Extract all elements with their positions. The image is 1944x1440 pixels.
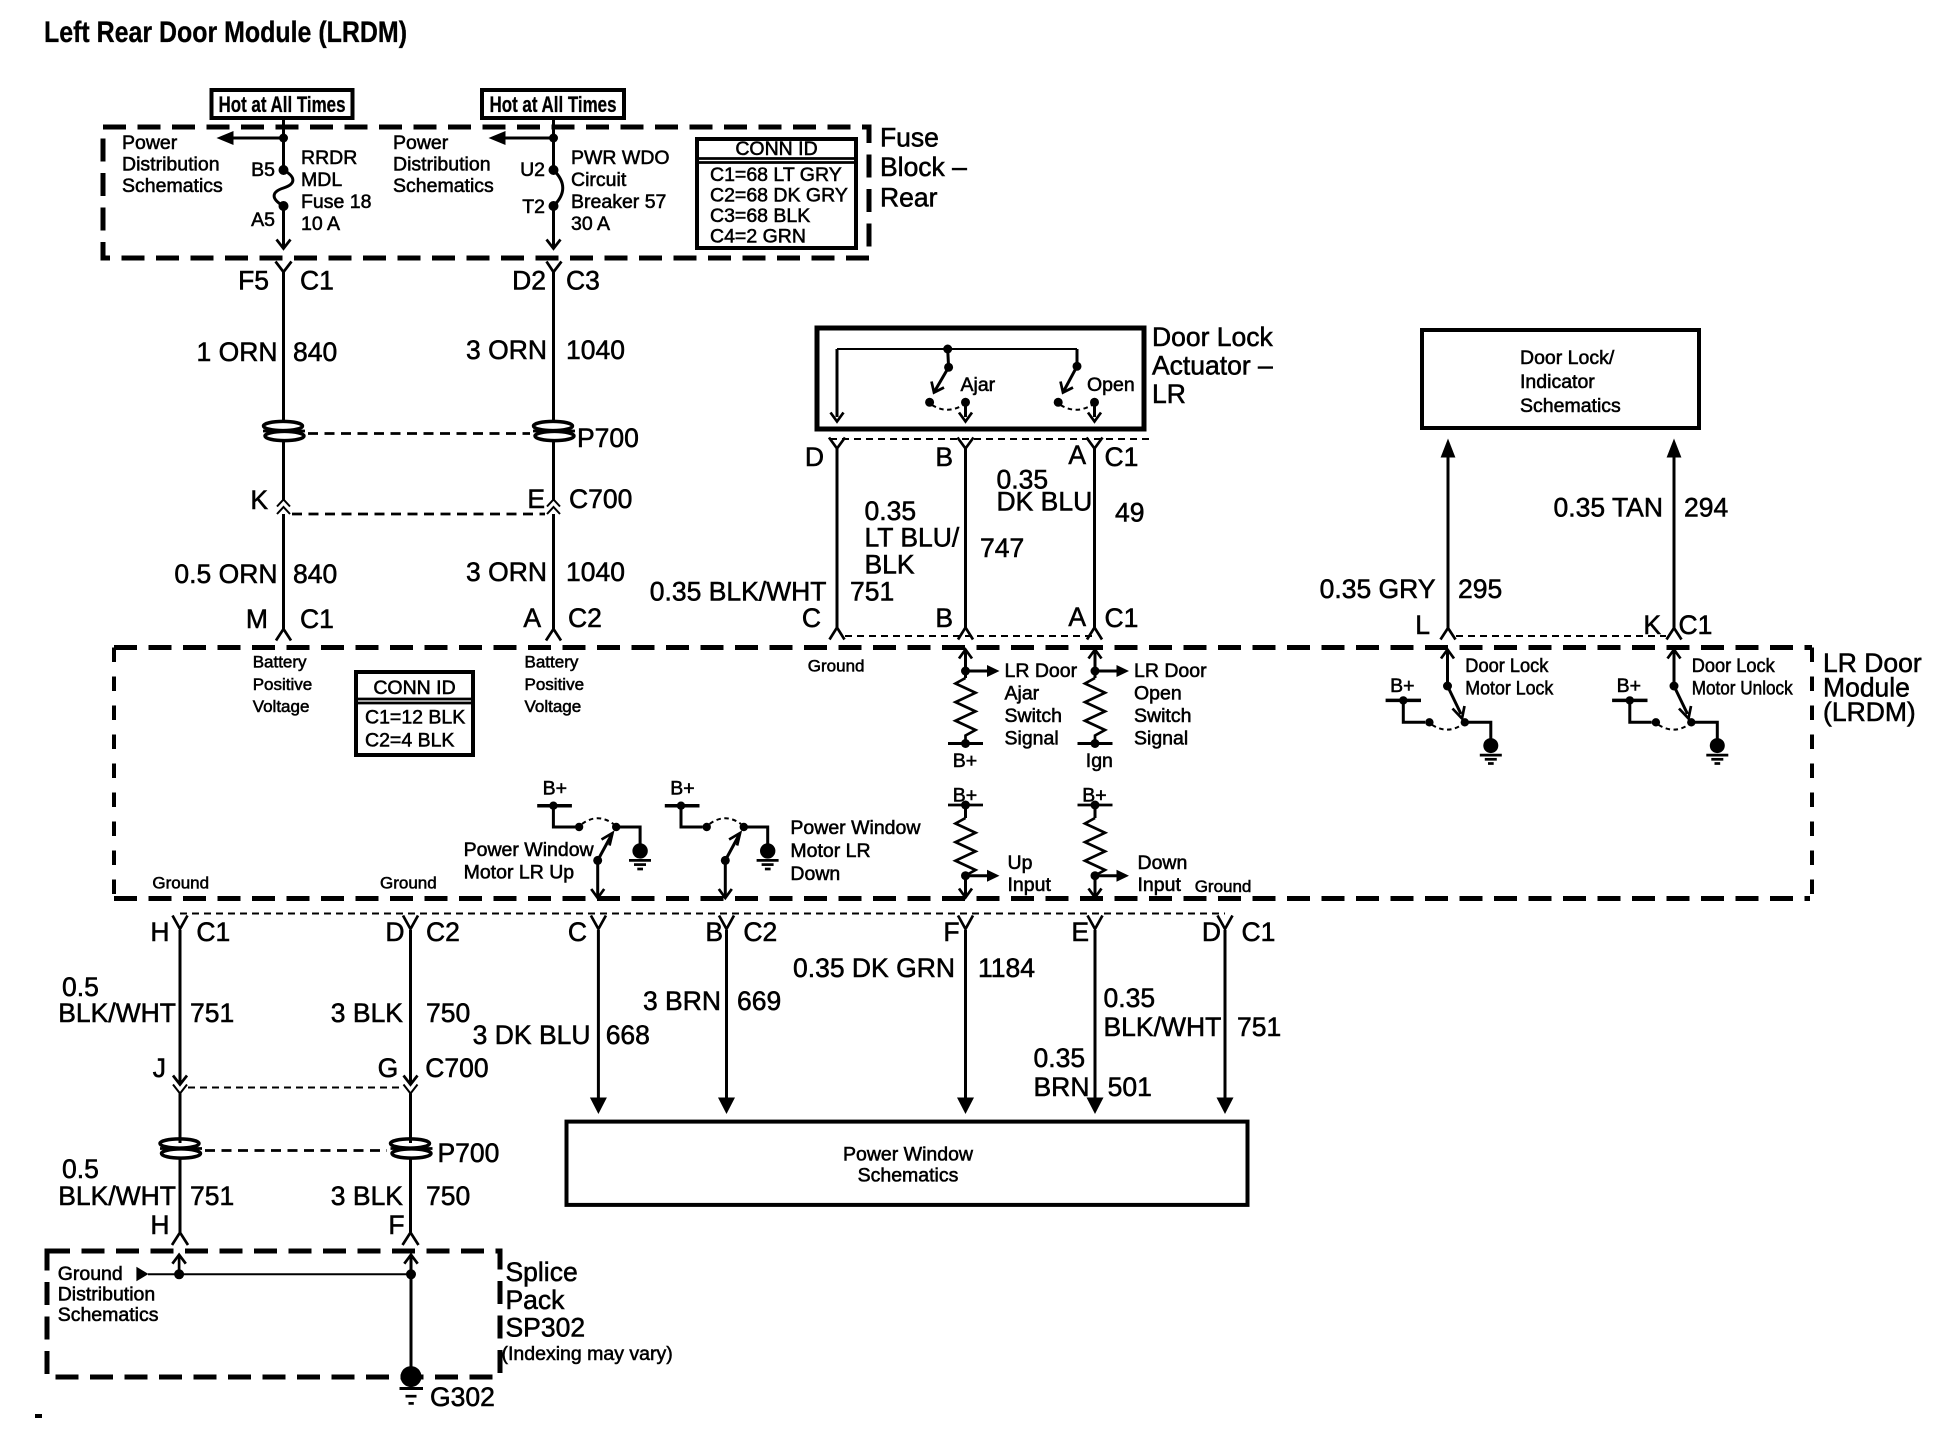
svg-text:B+: B+ bbox=[953, 750, 977, 772]
svg-text:H: H bbox=[150, 917, 169, 947]
svg-text:E: E bbox=[527, 484, 545, 514]
svg-text:Distribution: Distribution bbox=[393, 154, 491, 176]
svg-text:F5: F5 bbox=[238, 266, 269, 296]
svg-text:3 BLK: 3 BLK bbox=[331, 1181, 404, 1211]
svg-text:C1=12 BLK: C1=12 BLK bbox=[365, 707, 465, 729]
svg-text:F: F bbox=[943, 917, 959, 947]
svg-text:H: H bbox=[150, 1210, 169, 1240]
svg-text:Power: Power bbox=[393, 132, 449, 154]
svg-text:669: 669 bbox=[737, 986, 781, 1016]
svg-text:LR Door: LR Door bbox=[1134, 660, 1207, 682]
svg-text:C3=68 BLK: C3=68 BLK bbox=[710, 205, 810, 227]
svg-text:D: D bbox=[1202, 917, 1221, 947]
svg-text:Battery: Battery bbox=[253, 653, 307, 672]
svg-text:C4=2 GRN: C4=2 GRN bbox=[710, 226, 806, 248]
svg-text:0.35 TAN: 0.35 TAN bbox=[1554, 493, 1664, 523]
svg-text:Positive: Positive bbox=[525, 675, 585, 694]
svg-text:Door Lock: Door Lock bbox=[1692, 655, 1775, 677]
svg-text:SP302: SP302 bbox=[506, 1313, 586, 1343]
svg-text:C: C bbox=[568, 917, 587, 947]
svg-text:BLK: BLK bbox=[865, 550, 915, 580]
svg-text:K: K bbox=[250, 485, 268, 515]
svg-text:D2: D2 bbox=[512, 266, 546, 296]
svg-text:T2: T2 bbox=[522, 196, 545, 218]
svg-text:747: 747 bbox=[980, 533, 1024, 563]
svg-text:295: 295 bbox=[1458, 574, 1502, 604]
svg-text:D: D bbox=[385, 917, 404, 947]
svg-text:BRN: BRN bbox=[1034, 1072, 1090, 1102]
svg-text:Battery: Battery bbox=[525, 653, 579, 672]
svg-text:Block –: Block – bbox=[880, 152, 967, 182]
svg-text:J: J bbox=[153, 1053, 166, 1083]
svg-text:C2=68 DK GRY: C2=68 DK GRY bbox=[710, 185, 848, 207]
svg-text:751: 751 bbox=[190, 1181, 234, 1211]
svg-text:668: 668 bbox=[606, 1020, 650, 1050]
svg-text:Door Lock: Door Lock bbox=[1152, 322, 1274, 352]
svg-text:Actuator –: Actuator – bbox=[1152, 351, 1273, 381]
svg-text:F: F bbox=[388, 1210, 404, 1240]
svg-text:840: 840 bbox=[293, 337, 337, 367]
svg-text:C1: C1 bbox=[1105, 603, 1139, 633]
svg-text:Indicator: Indicator bbox=[1520, 371, 1595, 393]
svg-text:C3: C3 bbox=[566, 266, 600, 296]
svg-text:B5: B5 bbox=[251, 159, 275, 181]
svg-text:751: 751 bbox=[1237, 1012, 1281, 1042]
svg-text:3 DK BLU: 3 DK BLU bbox=[473, 1020, 591, 1050]
svg-text:Signal: Signal bbox=[1134, 728, 1188, 750]
svg-text:C1: C1 bbox=[300, 604, 334, 634]
svg-text:B+: B+ bbox=[1390, 675, 1414, 697]
svg-text:Breaker 57: Breaker 57 bbox=[571, 191, 666, 213]
svg-text:Motor LR: Motor LR bbox=[790, 840, 870, 862]
svg-text:Ajar: Ajar bbox=[1005, 683, 1040, 705]
svg-text:Voltage: Voltage bbox=[525, 697, 582, 716]
svg-text:DK BLU: DK BLU bbox=[997, 487, 1093, 517]
svg-text:G: G bbox=[378, 1053, 399, 1083]
svg-text:Power Window: Power Window bbox=[464, 839, 595, 861]
svg-text:M: M bbox=[246, 604, 268, 634]
svg-text:Up: Up bbox=[1008, 852, 1033, 874]
svg-text:1184: 1184 bbox=[978, 953, 1035, 983]
svg-text:Door Lock/: Door Lock/ bbox=[1520, 347, 1615, 369]
svg-text:Power: Power bbox=[122, 132, 178, 154]
svg-text:Down: Down bbox=[1138, 852, 1188, 874]
svg-text:750: 750 bbox=[426, 1181, 470, 1211]
svg-text:E: E bbox=[1071, 917, 1089, 947]
svg-text:B: B bbox=[935, 442, 953, 472]
svg-text:MDL: MDL bbox=[301, 169, 342, 191]
svg-text:G302: G302 bbox=[430, 1382, 495, 1412]
svg-text:Signal: Signal bbox=[1005, 728, 1059, 750]
svg-text:Ground: Ground bbox=[58, 1263, 123, 1285]
svg-text:Motor Unlock: Motor Unlock bbox=[1692, 678, 1793, 700]
svg-text:C700: C700 bbox=[425, 1053, 488, 1083]
svg-text:Door Lock: Door Lock bbox=[1465, 655, 1548, 677]
svg-text:A5: A5 bbox=[251, 209, 275, 231]
svg-text:P700: P700 bbox=[577, 423, 639, 453]
svg-text:A: A bbox=[1068, 602, 1086, 632]
svg-text:0.5 ORN: 0.5 ORN bbox=[174, 559, 277, 589]
svg-text:0.35 BLK/WHT: 0.35 BLK/WHT bbox=[650, 577, 827, 607]
svg-text:Open: Open bbox=[1134, 683, 1182, 705]
svg-text:751: 751 bbox=[850, 577, 894, 607]
svg-text:3 ORN: 3 ORN bbox=[466, 335, 547, 365]
svg-text:3 ORN: 3 ORN bbox=[466, 557, 547, 587]
svg-text:Power Window: Power Window bbox=[843, 1144, 974, 1166]
svg-text:0.35 DK GRN: 0.35 DK GRN bbox=[793, 953, 955, 983]
svg-text:BLK/WHT: BLK/WHT bbox=[58, 998, 176, 1028]
svg-text:BLK/WHT: BLK/WHT bbox=[58, 1181, 176, 1211]
svg-text:0.35: 0.35 bbox=[1104, 983, 1156, 1013]
svg-text:Pack: Pack bbox=[506, 1285, 566, 1315]
svg-text:Distribution: Distribution bbox=[122, 154, 220, 176]
svg-text:Ign: Ign bbox=[1086, 750, 1113, 772]
svg-text:LT BLU/: LT BLU/ bbox=[865, 523, 960, 553]
svg-text:LR Door: LR Door bbox=[1005, 660, 1078, 682]
svg-text:Down: Down bbox=[790, 863, 840, 885]
svg-text:A: A bbox=[523, 603, 541, 633]
svg-text:0.35: 0.35 bbox=[1034, 1043, 1086, 1073]
svg-text:49: 49 bbox=[1115, 498, 1144, 528]
svg-text:C1: C1 bbox=[196, 917, 230, 947]
svg-text:PWR WDO: PWR WDO bbox=[571, 147, 670, 169]
svg-text:Input: Input bbox=[1008, 874, 1052, 896]
svg-text:B+: B+ bbox=[1617, 675, 1641, 697]
svg-text:(Indexing may vary): (Indexing may vary) bbox=[502, 1343, 673, 1365]
svg-text:Switch: Switch bbox=[1005, 705, 1062, 727]
svg-text:Ground: Ground bbox=[808, 657, 865, 676]
svg-text:1040: 1040 bbox=[566, 335, 625, 365]
svg-text:L: L bbox=[1415, 610, 1430, 640]
svg-text:C2: C2 bbox=[426, 917, 460, 947]
svg-text:Left Rear Door Module (LRDM): Left Rear Door Module (LRDM) bbox=[44, 16, 407, 49]
svg-text:Distribution: Distribution bbox=[58, 1284, 156, 1306]
svg-text:C1: C1 bbox=[1679, 610, 1713, 640]
svg-text:A: A bbox=[1068, 440, 1086, 470]
svg-text:Ajar: Ajar bbox=[961, 374, 996, 396]
svg-text:U2: U2 bbox=[520, 159, 545, 181]
svg-text:10 A: 10 A bbox=[301, 213, 340, 235]
svg-text:1040: 1040 bbox=[566, 557, 625, 587]
svg-text:Ground: Ground bbox=[152, 874, 209, 893]
svg-text:294: 294 bbox=[1684, 493, 1728, 523]
svg-text:Switch: Switch bbox=[1134, 705, 1191, 727]
svg-text:Schematics: Schematics bbox=[122, 175, 223, 197]
svg-text:Motor Lock: Motor Lock bbox=[1465, 678, 1553, 700]
svg-text:Voltage: Voltage bbox=[253, 697, 310, 716]
svg-text:Ground: Ground bbox=[380, 874, 437, 893]
svg-text:C2: C2 bbox=[568, 603, 602, 633]
svg-text:750: 750 bbox=[426, 998, 470, 1028]
svg-text:C1: C1 bbox=[1105, 442, 1139, 472]
svg-text:Fuse 18: Fuse 18 bbox=[301, 191, 371, 213]
svg-text:Rear: Rear bbox=[880, 183, 938, 213]
svg-text:B: B bbox=[935, 603, 953, 633]
svg-text:C700: C700 bbox=[569, 484, 632, 514]
svg-text:3 BRN: 3 BRN bbox=[643, 986, 721, 1016]
svg-text:B+: B+ bbox=[670, 778, 694, 800]
svg-text:BLK/WHT: BLK/WHT bbox=[1104, 1012, 1222, 1042]
svg-text:0.35 GRY: 0.35 GRY bbox=[1320, 574, 1436, 604]
svg-text:CONN ID: CONN ID bbox=[373, 677, 455, 699]
svg-text:B+: B+ bbox=[543, 778, 567, 800]
svg-text:Motor LR Up: Motor LR Up bbox=[464, 862, 575, 884]
svg-text:Input: Input bbox=[1138, 874, 1182, 896]
svg-text:Fuse: Fuse bbox=[880, 123, 939, 153]
svg-text:Hot at All Times: Hot at All Times bbox=[219, 92, 346, 117]
svg-text:Schematics: Schematics bbox=[393, 175, 494, 197]
svg-text:C1: C1 bbox=[1242, 917, 1276, 947]
svg-text:751: 751 bbox=[190, 998, 234, 1028]
svg-text:C1: C1 bbox=[300, 266, 334, 296]
svg-text:Hot at All Times: Hot at All Times bbox=[490, 92, 617, 117]
svg-text:C1=68 LT GRY: C1=68 LT GRY bbox=[710, 164, 842, 186]
svg-text:Ground: Ground bbox=[1195, 877, 1252, 896]
svg-text:C: C bbox=[802, 603, 821, 633]
svg-text:Positive: Positive bbox=[253, 675, 313, 694]
svg-text:RRDR: RRDR bbox=[301, 147, 357, 169]
svg-text:1 ORN: 1 ORN bbox=[197, 337, 278, 367]
svg-text:C2: C2 bbox=[743, 917, 777, 947]
svg-text:Power Window: Power Window bbox=[790, 817, 921, 839]
svg-text:3 BLK: 3 BLK bbox=[331, 998, 404, 1028]
svg-text:Schematics: Schematics bbox=[58, 1304, 159, 1326]
svg-text:B: B bbox=[705, 917, 723, 947]
svg-text:CONN ID: CONN ID bbox=[735, 138, 817, 160]
svg-text:Circuit: Circuit bbox=[571, 169, 627, 191]
svg-text:P700: P700 bbox=[438, 1138, 500, 1168]
svg-text:(LRDM): (LRDM) bbox=[1823, 697, 1916, 727]
svg-text:840: 840 bbox=[293, 559, 337, 589]
svg-text:LR: LR bbox=[1152, 379, 1186, 409]
svg-text:Schematics: Schematics bbox=[1520, 395, 1621, 417]
svg-text:0.5: 0.5 bbox=[62, 1154, 99, 1184]
svg-text:30 A: 30 A bbox=[571, 213, 610, 235]
svg-text:Schematics: Schematics bbox=[858, 1165, 959, 1187]
svg-text:501: 501 bbox=[1108, 1072, 1152, 1102]
svg-text:D: D bbox=[805, 442, 824, 472]
svg-text:Open: Open bbox=[1087, 374, 1135, 396]
svg-text:C2=4 BLK: C2=4 BLK bbox=[365, 730, 454, 752]
svg-text:Splice: Splice bbox=[506, 1257, 578, 1287]
svg-text:0.35: 0.35 bbox=[865, 496, 917, 526]
